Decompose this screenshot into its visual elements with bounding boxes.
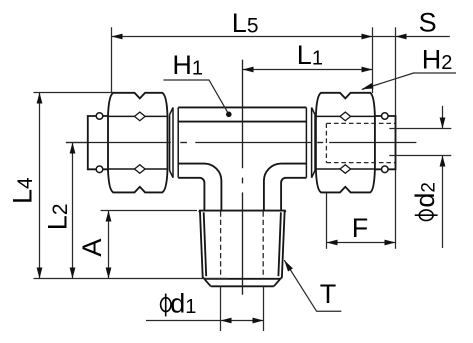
F right arrow — [385, 240, 396, 246]
right collar between body and nut — [306, 108, 315, 178]
body hex boundary lower left with branch fillet — [178, 164, 221, 211]
left collar between nut and body — [170, 108, 179, 178]
svg-text:H2: H2 — [422, 44, 453, 74]
thread bottom chamfer left — [204, 279, 211, 287]
svg-text:A: A — [77, 239, 107, 257]
right nut hidden bore dashes — [326, 123, 395, 162]
svg-text:L4: L4 — [8, 177, 38, 204]
phi d2 extension line bottom — [389, 155, 451, 157]
svg-text:d1: d1 — [170, 288, 196, 318]
A top arrow — [106, 211, 112, 222]
right stub circle top — [382, 113, 389, 120]
nut H2 (right) outline — [316, 93, 375, 193]
right tube stub — [375, 116, 396, 169]
phi d1 left arrow — [221, 318, 232, 324]
body hex boundary upper — [178, 121, 306, 123]
phi d2 up arrow — [440, 156, 446, 167]
right nut diamond bottom — [340, 165, 351, 174]
label phi d1 — [161, 294, 171, 317]
right nut flat boundary bottom — [316, 168, 375, 170]
left stub circle top — [96, 113, 103, 120]
H1 leader dot — [226, 112, 232, 118]
body hex boundary lower right with branch fillet — [264, 164, 307, 211]
thread minor dia hidden line left — [220, 212, 222, 279]
left nut diamond top — [135, 112, 146, 121]
right stub circle bottom — [382, 166, 389, 173]
dimension line A — [108, 211, 110, 279]
tube stop hidden line — [325, 123, 327, 162]
extension line from thread end (bottom) — [34, 278, 229, 280]
phi d2 down arrow — [440, 118, 446, 129]
left tube stub — [88, 116, 111, 169]
L5 right arrow — [362, 34, 373, 40]
dimension line L5 and S — [112, 36, 450, 38]
right nut flat boundary top — [316, 115, 375, 117]
L4 top arrow — [37, 93, 43, 104]
label phi d2 (rotated) — [415, 210, 438, 221]
H1 leader line — [164, 80, 229, 114]
thread right root line — [278, 212, 281, 276]
left nut flat boundary top — [108, 115, 168, 117]
svg-text:T: T — [320, 279, 337, 309]
dimension line L1 — [243, 69, 373, 71]
horizontal center line — [66, 142, 417, 144]
body top edge — [178, 106, 306, 108]
extension line from center (L2) — [66, 142, 87, 144]
phi d1 right arrow — [253, 318, 264, 324]
dimension line phi d2 lower — [442, 156, 444, 249]
left stub circle bottom — [96, 166, 103, 173]
dimension line L2 — [72, 143, 74, 279]
phi d1 extension line right — [263, 286, 265, 331]
F extension line left — [326, 193, 328, 249]
extension line from nut top (L4) — [34, 92, 115, 94]
body bottom edge right with branch fillet — [281, 178, 306, 211]
svg-text:d2: d2 — [410, 182, 440, 208]
thread left root line — [204, 212, 207, 276]
H2 leader arrow — [362, 83, 374, 89]
dimension line phi d2 upper — [442, 106, 444, 129]
svg-text:L5: L5 — [232, 8, 259, 38]
dimension line phi d1 — [146, 320, 264, 322]
thread minor dia hidden line right — [262, 212, 264, 279]
H2 leader line — [362, 73, 456, 90]
F left arrow — [327, 240, 338, 246]
svg-text:L2: L2 — [43, 203, 73, 230]
dimension line L4 — [39, 93, 41, 279]
svg-text:F: F — [352, 213, 369, 243]
extension line above right nut face — [372, 27, 374, 93]
F extension line right — [395, 170, 397, 249]
extension line from thread shoulder (A) — [101, 210, 197, 212]
L2 top arrow — [70, 143, 76, 154]
thread right taper edge — [280, 211, 285, 279]
extension line above left nut face — [111, 27, 113, 92]
body hex H1 — [178, 107, 306, 210]
thread bottom face — [204, 278, 280, 280]
thread end face — [211, 285, 274, 287]
dimension line F — [327, 242, 396, 244]
A bottom arrow — [106, 268, 112, 279]
L1 right arrow — [362, 67, 373, 73]
male thread T outline — [199, 211, 286, 287]
vertical center line — [242, 60, 244, 295]
left nut flat boundary bottom — [108, 168, 168, 170]
svg-text:S: S — [419, 8, 437, 38]
phi d1 extension line left — [220, 286, 222, 331]
body bottom edge left with branch fillet — [178, 178, 204, 211]
svg-text:L1: L1 — [297, 40, 323, 70]
thread top shoulder line — [199, 210, 286, 212]
thread left taper edge — [199, 211, 204, 279]
L1 left arrow — [243, 67, 254, 73]
thread bottom chamfer right — [274, 279, 281, 287]
T leader line — [284, 260, 341, 311]
L5 left arrow — [112, 34, 123, 40]
phi d2 extension line top — [389, 128, 451, 130]
T leader arrow — [284, 260, 293, 271]
L4 bottom arrow — [37, 268, 43, 279]
S arrow — [396, 34, 407, 40]
L2 bottom arrow — [70, 268, 76, 279]
nut H1 (left) outline — [108, 93, 168, 193]
svg-text:H1: H1 — [172, 50, 203, 80]
right nut diamond top — [340, 112, 351, 121]
left nut diamond bottom — [135, 165, 146, 174]
extension line above right stub end — [395, 27, 397, 116]
